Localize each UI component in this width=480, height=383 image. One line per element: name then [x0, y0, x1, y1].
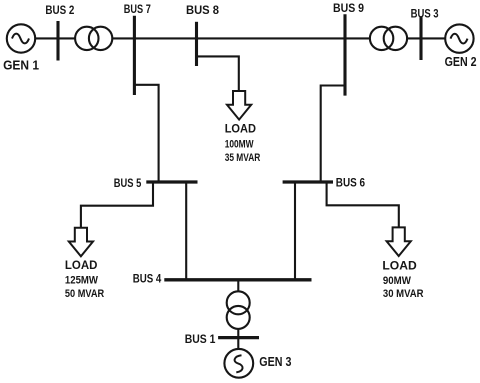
svg-text:BUS 8: BUS 8: [186, 4, 220, 17]
svg-text:LOAD: LOAD: [65, 258, 98, 272]
wire transformer T2 to BUS3 to GEN2: [407, 37, 446, 39]
transformer T1 right winding: [89, 27, 112, 50]
transformer T3 top winding: [227, 291, 250, 314]
generator G1 circle: [7, 24, 35, 52]
svg-text:35 MVAR: 35 MVAR: [225, 152, 261, 164]
wire BUS7 branch down to BUS5: [134, 85, 158, 182]
svg-text:GEN 1: GEN 1: [3, 59, 39, 73]
wire BUS9 branch down to BUS6: [321, 86, 345, 183]
wire transformer T1 to BUS7/BUS8/BUS9 main tie: [112, 37, 370, 39]
transformer T1 left winding: [75, 27, 98, 50]
wire BUS5 down to BUS4: [185, 182, 187, 280]
wire BUS4 to transformer T3: [237, 280, 239, 292]
bus bar BUS 4: [164, 278, 311, 281]
transformer T2 right winding: [384, 27, 407, 50]
generator G3 circle: [224, 349, 253, 378]
svg-text:BUS 4: BUS 4: [133, 272, 162, 285]
bus bar BUS 1: [218, 336, 259, 339]
generator G1 sine symbol: [12, 34, 29, 44]
transformer T2 left winding: [370, 27, 393, 50]
svg-text:50 MVAR: 50 MVAR: [65, 288, 104, 300]
svg-text:100MW: 100MW: [225, 139, 254, 151]
bus bar BUS 7: [133, 16, 136, 95]
generator G3 sine symbol: [235, 355, 243, 372]
wire BUS8 to load L1: [197, 56, 239, 92]
svg-text:BUS 2: BUS 2: [45, 4, 74, 17]
svg-text:125MW: 125MW: [65, 275, 99, 287]
bus bar BUS 9: [343, 14, 346, 95]
bus bar BUS 8: [195, 22, 198, 66]
generator G2 sine symbol: [451, 34, 468, 44]
load arrow L3: [387, 227, 411, 256]
svg-text:BUS 9: BUS 9: [333, 2, 364, 15]
load arrow L1: [227, 91, 251, 120]
svg-text:LOAD: LOAD: [382, 259, 417, 273]
svg-text:GEN 2: GEN 2: [445, 55, 477, 69]
wire BUS6 to load L3: [327, 182, 399, 228]
svg-text:BUS 7: BUS 7: [124, 3, 151, 16]
svg-text:BUS 6: BUS 6: [336, 176, 366, 189]
svg-text:BUS 3: BUS 3: [411, 8, 439, 21]
svg-text:BUS 1: BUS 1: [185, 333, 216, 346]
wire GEN1 to BUS2 to transformer T1: [35, 37, 76, 39]
bus bar BUS 3: [419, 17, 422, 60]
svg-text:GEN 3: GEN 3: [259, 355, 291, 369]
wire transformer T3 through BUS1 to GEN3: [237, 328, 239, 349]
generator G2 circle: [445, 24, 473, 52]
bus bar BUS 5: [146, 180, 197, 183]
load arrow L2: [69, 228, 93, 257]
bus bar BUS 6: [283, 180, 333, 183]
wire BUS6 down to BUS4: [294, 182, 296, 280]
bus bar BUS 2: [56, 21, 59, 61]
svg-text:LOAD: LOAD: [225, 121, 257, 135]
svg-text:BUS 5: BUS 5: [114, 177, 142, 190]
wire BUS5 to load L2: [81, 182, 153, 228]
svg-text:90MW: 90MW: [383, 275, 412, 287]
svg-text:30 MVAR: 30 MVAR: [383, 288, 424, 300]
transformer T3 bottom winding: [227, 306, 250, 329]
